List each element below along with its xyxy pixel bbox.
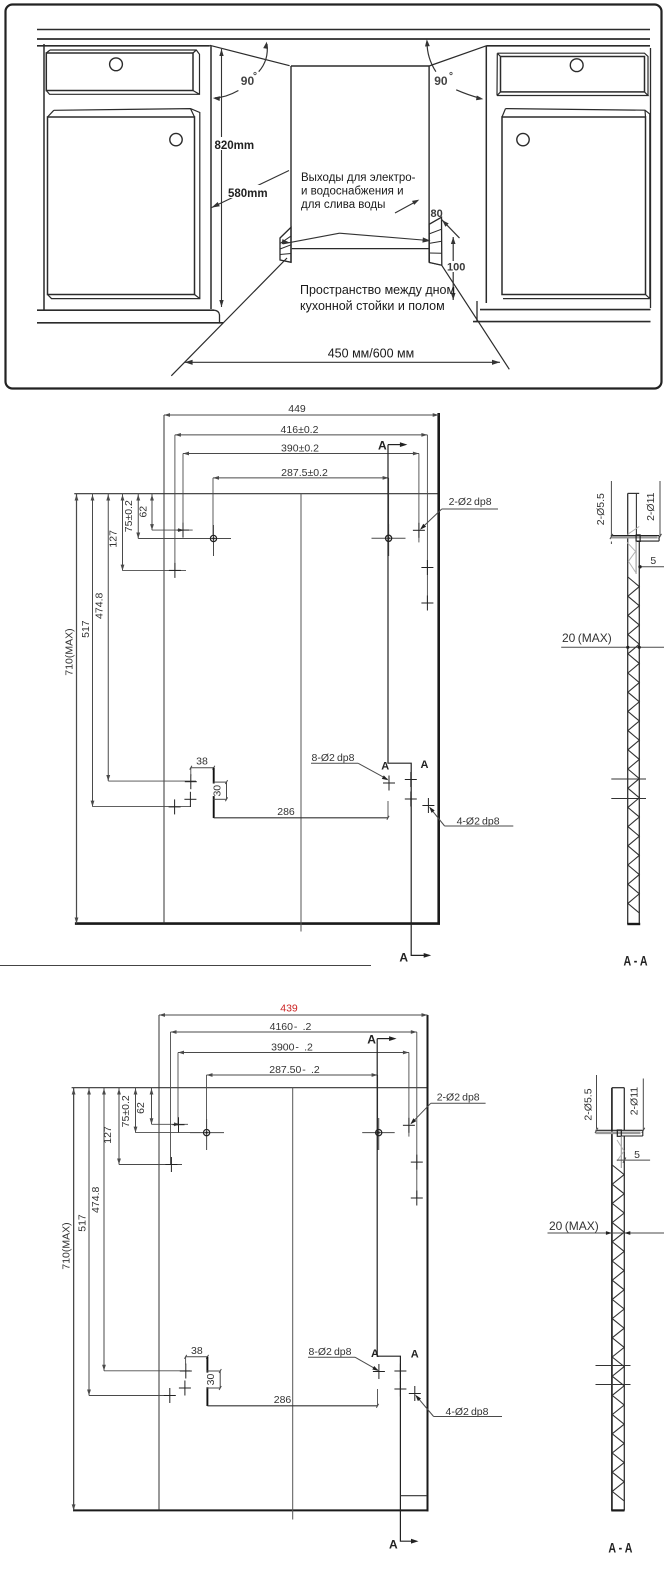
- left cabinet side walls: [44, 44, 211, 310]
- left vertical dimensions: [75, 494, 206, 924]
- circled hole left (2-O2): [197, 525, 231, 556]
- dim 2-O5.5: [595, 481, 613, 544]
- svg-text:для слива воды: для слива воды: [301, 199, 385, 211]
- svg-text:474.8: 474.8: [93, 593, 105, 619]
- svg-text:62: 62: [138, 506, 150, 518]
- svg-text:°: °: [253, 71, 257, 82]
- dim 5 (bottom): [617, 1149, 650, 1163]
- zigzag hatching (bottom): [612, 1165, 624, 1501]
- space-under-counter text (Prostranstvo): [300, 283, 455, 313]
- svg-text:A: A: [389, 1537, 398, 1551]
- left dimension labels (rotated): [64, 500, 150, 676]
- svg-text:75±0.2: 75±0.2: [123, 500, 135, 532]
- left hatch block (plinth): [280, 227, 291, 262]
- mounting bracket plate (bottom): [596, 1130, 643, 1136]
- separator line: [0, 965, 371, 967]
- dimension extension lines: [175, 435, 428, 603]
- svg-text:A: A: [367, 1033, 376, 1047]
- dimension 286: [214, 801, 389, 820]
- kitchen installation figure frame: [6, 5, 662, 389]
- svg-text:8-Ø2 dp8: 8-Ø2 dp8: [312, 752, 355, 764]
- svg-text:A - A: A - A: [624, 954, 648, 969]
- small hole crosses (bottom): [164, 1117, 423, 1403]
- svg-text:30: 30: [212, 785, 224, 797]
- section strip outline: [628, 493, 640, 924]
- center line: [300, 494, 302, 932]
- break lines: [611, 779, 646, 799]
- floor perspective diagonals: [171, 258, 509, 376]
- svg-text:8-Ø2 dp8: 8-Ø2 dp8: [309, 1346, 352, 1358]
- right door knob: [517, 133, 529, 145]
- dimension 287.5±0.2: [213, 467, 389, 480]
- dimension 580mm leader: [212, 171, 290, 208]
- step cutout with 38 and 30 dims: [190, 756, 228, 818]
- dimension 450mm/600mm: [185, 347, 500, 365]
- small hole crosses: [169, 523, 435, 815]
- svg-text:2-Ø5.5: 2-Ø5.5: [595, 493, 607, 525]
- svg-text:°: °: [449, 71, 453, 82]
- label 2-O2dp8 (bottom): [410, 1091, 485, 1124]
- dim 20 MAX: [561, 631, 664, 649]
- right cabinet door: [502, 109, 650, 299]
- svg-text:A: A: [399, 951, 408, 965]
- fold line (bottom): [158, 1015, 160, 1510]
- svg-text:286: 286: [277, 806, 295, 818]
- step cutout with 38 and 30 dims (bottom): [184, 1345, 221, 1406]
- svg-text:449: 449: [288, 403, 306, 415]
- circled hole right (bottom): [362, 1118, 395, 1150]
- mounting bracket plate: [611, 535, 659, 542]
- svg-text:450 мм/600 мм: 450 мм/600 мм: [328, 347, 415, 361]
- svg-text:517: 517: [80, 620, 92, 638]
- dimension 439 (red): [159, 1003, 428, 1017]
- svg-text:4160 - .2: 4160 - .2: [270, 1021, 312, 1033]
- svg-text:286: 286: [274, 1394, 292, 1406]
- left dimension labels (bottom, rotated): [61, 1095, 147, 1270]
- svg-text:кухонной стойки и полом: кухонной стойки и полом: [300, 299, 445, 313]
- svg-text:5: 5: [634, 1149, 640, 1161]
- svg-text:A: A: [371, 1348, 379, 1360]
- floor lines left: [37, 310, 223, 323]
- svg-text:3900 - .2: 3900 - .2: [271, 1041, 313, 1053]
- floor lines right: [473, 301, 651, 322]
- svg-text:2-Ø2 dp8: 2-Ø2 dp8: [449, 496, 492, 508]
- right cabinet outer side: [650, 48, 652, 308]
- left drawer handle: [110, 58, 123, 71]
- dimension 100: [447, 237, 466, 300]
- corner segment near bottom right: [400, 1495, 427, 1497]
- svg-text:127: 127: [108, 530, 120, 548]
- section line A-A (bottom, stepped): [367, 1033, 418, 1552]
- svg-text:30: 30: [205, 1374, 217, 1386]
- dimension 80: [431, 208, 460, 238]
- svg-text:75±0.2: 75±0.2: [120, 1095, 132, 1127]
- svg-text:80: 80: [431, 208, 443, 220]
- label 8-O2 dp8 (bottom): [308, 1346, 379, 1371]
- right drawer handle: [570, 59, 583, 72]
- svg-text:287.5±0.2: 287.5±0.2: [281, 467, 328, 479]
- svg-text:287.50 - .2: 287.50 - .2: [269, 1064, 320, 1076]
- dimension extension lines (bottom): [171, 1032, 417, 1198]
- svg-text:416±0.2: 416±0.2: [281, 424, 319, 436]
- label 2-O2dp8: [420, 496, 498, 530]
- dim 2-O11: [645, 481, 662, 539]
- left 90 degree angle: [213, 42, 268, 101]
- svg-text:580mm: 580mm: [228, 188, 268, 200]
- dimension 390 0/-.2: [178, 1041, 409, 1054]
- svg-text:474.8: 474.8: [90, 1187, 102, 1213]
- dim 2-O5.5 (bottom): [583, 1075, 599, 1133]
- dim 5: [638, 555, 664, 569]
- dimension 390±0.2: [183, 442, 419, 455]
- label 8-O2 dp8: [311, 752, 389, 780]
- circled hole left (bottom): [190, 1119, 224, 1150]
- center line (bottom): [292, 1088, 294, 1520]
- dimension 286 (bottom): [207, 1389, 378, 1408]
- outlets text (Vykhody): [301, 172, 416, 211]
- bottom cap (bottom strip): [611, 1509, 624, 1511]
- svg-text:A: A: [378, 439, 387, 453]
- label 4-O2 dp8 (bottom): [415, 1395, 502, 1418]
- left vertical dimensions (bottom): [72, 1088, 200, 1511]
- fold line: [163, 415, 165, 924]
- break lines (bottom): [596, 1366, 631, 1385]
- grey screw phantom (bottom): [617, 1136, 624, 1168]
- left cabinet door: [48, 109, 200, 299]
- svg-text:Пространство между дном: Пространство между дном: [300, 283, 455, 297]
- dimension 416±0.2: [175, 424, 428, 437]
- svg-text:20 (MAX): 20 (MAX): [562, 631, 612, 645]
- svg-text:710(MAX): 710(MAX): [64, 628, 76, 675]
- svg-text:2-Ø5.5: 2-Ø5.5: [583, 1088, 595, 1120]
- zigzag hatching: [628, 577, 639, 913]
- section strip outline (bottom): [612, 1088, 624, 1511]
- countertop lines: [37, 30, 650, 46]
- svg-text:517: 517: [76, 1214, 88, 1232]
- label 4-O2 dp8: [429, 807, 513, 828]
- bottom cap: [627, 923, 640, 925]
- right cabinet drawer: [497, 53, 648, 95]
- section line A-A (stepped): [378, 439, 431, 965]
- svg-text:A: A: [421, 759, 429, 771]
- svg-text:2-Ø11: 2-Ø11: [629, 1087, 641, 1116]
- svg-text:100: 100: [447, 262, 465, 274]
- svg-text:20 (MAX): 20 (MAX): [549, 1219, 599, 1233]
- panel outline (bottom): [72, 1015, 429, 1511]
- dimension 449: [164, 403, 439, 417]
- svg-text:5: 5: [650, 555, 656, 567]
- svg-text:A: A: [411, 1348, 419, 1360]
- right 90 degree angle: [425, 39, 483, 100]
- svg-text:390±0.2: 390±0.2: [281, 442, 319, 454]
- svg-text:38: 38: [191, 1345, 203, 1357]
- left cabinet drawer: [46, 50, 199, 94]
- dim 2-O11 (bottom): [629, 1079, 645, 1133]
- dimension 287.5 0/-.2: [207, 1064, 378, 1077]
- svg-text:90: 90: [434, 74, 448, 88]
- svg-text:2-Ø2 dp8: 2-Ø2 dp8: [437, 1091, 480, 1103]
- circled hole right (2-O2): [372, 524, 406, 556]
- svg-text:439: 439: [280, 1003, 298, 1015]
- svg-text:820mm: 820mm: [215, 140, 255, 152]
- left door knob: [170, 133, 182, 145]
- panel outline: [74, 413, 440, 925]
- svg-text:Выходы для электро-: Выходы для электро-: [301, 172, 416, 184]
- svg-text:и водоснабжения и: и водоснабжения и: [301, 186, 404, 198]
- svg-text:710(MAX): 710(MAX): [61, 1222, 73, 1269]
- outlets leader up-right: [395, 200, 419, 213]
- dim 20 MAX (bottom): [548, 1219, 664, 1235]
- svg-text:38: 38: [196, 756, 208, 768]
- svg-text:A - A: A - A: [608, 1541, 632, 1556]
- svg-text:2-Ø11: 2-Ø11: [645, 492, 657, 521]
- outlets tent leader to niche corners: [282, 233, 431, 244]
- svg-text:A: A: [381, 760, 389, 772]
- grey screw phantom: [627, 527, 639, 574]
- svg-text:62: 62: [135, 1102, 147, 1114]
- dimension 416 0/-.2: [171, 1021, 417, 1034]
- niche opening: [210, 45, 487, 262]
- right hatch block (plinth): [429, 217, 442, 265]
- dimension 820mm: [214, 49, 254, 307]
- right cabinet side wall: [485, 46, 487, 303]
- svg-text:127: 127: [102, 1126, 114, 1144]
